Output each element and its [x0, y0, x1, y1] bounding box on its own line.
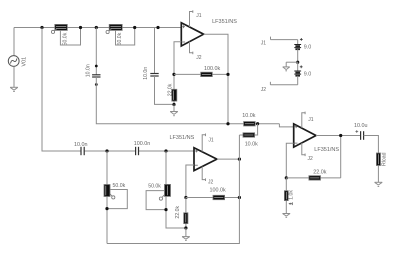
wire U3 feedback riser	[340, 136, 342, 178]
node output/feedback junction	[226, 73, 229, 76]
node U2 fb/rail junction	[238, 196, 241, 199]
wire vertical bus x=239	[107, 135, 239, 244]
potentiometer 50.0k (bottom B)	[148, 184, 170, 201]
pin J2 of U3	[302, 143, 313, 162]
resistor 10.0k (from U2)	[239, 124, 258, 148]
wire C2 to ground node	[155, 76, 175, 104]
potentiometer 50.0k (bottom A)	[104, 183, 126, 199]
resistor 22.0k (U3 feedback)	[286, 170, 340, 181]
svg-text:V01: V01	[21, 57, 27, 67]
op-amp U3 LF351/NS	[279, 124, 339, 153]
wire C1 down to mid rail	[96, 77, 243, 124]
node U2 feedback junction	[184, 196, 187, 199]
ground (battery midpoint)	[283, 62, 290, 71]
svg-text:9.0: 9.0	[304, 72, 312, 78]
node battery midpoint	[296, 61, 299, 64]
wire C2 riser	[154, 28, 156, 74]
ground (U1 net)	[170, 105, 178, 116]
wire pot2 wiper loop	[116, 28, 135, 46]
svg-text:22.0k: 22.0k	[167, 83, 173, 96]
svg-text:10.0n: 10.0n	[143, 67, 149, 80]
svg-text:9.0: 9.0	[304, 44, 312, 50]
resistor 1.0k (U3 to ground)	[284, 178, 294, 214]
svg-text:10.0u: 10.0u	[354, 123, 368, 129]
node pot B loop junction	[164, 208, 167, 211]
svg-text:10.0k: 10.0k	[242, 113, 255, 119]
resistor 10.0k (from U1)	[242, 113, 255, 126]
wire pot1 wiper loop	[60, 28, 80, 46]
wire midpoint to ground	[286, 61, 298, 63]
terminal J1 (supply)	[261, 37, 298, 47]
capacitor 10.0n (bottom rail)	[74, 142, 88, 155]
wire node A drop to bottom rail	[42, 28, 194, 152]
ground (Rload)	[375, 182, 383, 186]
node pot B branch junction	[164, 149, 167, 152]
wire pot A wiper loop	[107, 190, 127, 209]
node U3 feedback junction	[285, 176, 288, 179]
potentiometer 50.0k (top 1)	[51, 24, 68, 45]
pin J1 of U2	[202, 134, 214, 152]
node cap C1 top junction	[95, 26, 98, 29]
svg-text:100.0n: 100.0n	[134, 141, 151, 147]
svg-text:J2: J2	[208, 179, 214, 185]
wire U1 output	[204, 34, 228, 124]
svg-text:J2: J2	[308, 156, 314, 162]
wire V01 bottom	[13, 66, 15, 87]
battery V- 9.0	[294, 62, 311, 85]
resistor 100.0k (U1 feedback)	[174, 66, 228, 77]
node C1 upper pin dot	[95, 65, 98, 68]
node A junction	[40, 26, 43, 29]
terminal J2 (supply)	[261, 82, 298, 93]
wire V01 top riser	[13, 28, 15, 56]
wire U1 inverting input	[174, 42, 181, 105]
node ground junction U1	[172, 103, 175, 106]
battery V+ 9.0	[294, 38, 311, 62]
wire U2 inverting input	[186, 165, 194, 198]
node pot A loop junction	[105, 207, 108, 210]
wire C1 riser	[95, 28, 97, 75]
svg-text:50.0k: 50.0k	[62, 32, 68, 45]
svg-text:LF351/NS: LF351/NS	[170, 135, 195, 141]
wire top rail	[14, 27, 181, 29]
svg-text:10.0n: 10.0n	[85, 64, 91, 77]
node pot A branch junction	[105, 149, 108, 152]
node pot1 loop junction	[79, 26, 82, 29]
capacitor C1 10.0n	[85, 64, 100, 77]
svg-text:Rload: Rload	[381, 152, 387, 166]
ground (U3 net)	[283, 214, 291, 218]
wire U3 output	[316, 135, 361, 137]
svg-text:J1: J1	[308, 117, 314, 123]
op-amp U2 LF351/NS	[170, 135, 217, 171]
wire U3 inverting input	[286, 143, 293, 178]
ground (V01)	[10, 87, 18, 91]
svg-text:J2: J2	[196, 55, 202, 61]
svg-text:50.0k: 50.0k	[117, 32, 123, 45]
wire pot B lower	[166, 196, 186, 228]
wire pot A riser	[106, 151, 108, 185]
svg-text:J1: J1	[208, 137, 214, 143]
svg-text:J1: J1	[261, 41, 267, 47]
svg-text:LF351/NS: LF351/NS	[314, 147, 339, 153]
svg-text:J1: J1	[196, 13, 202, 19]
resistor 22.0k (U2 to ground)	[175, 198, 188, 229]
pin J2 of U1	[190, 42, 202, 61]
resistor 100.0k (U2 feedback)	[186, 188, 240, 200]
pin J1 of U3	[302, 112, 314, 128]
resistor 22.0k (U1 to ground)	[167, 83, 176, 101]
ground (U2 net)	[182, 228, 190, 240]
node summing rail junction	[226, 122, 229, 125]
capacitor 100.0n (bottom rail)	[134, 141, 151, 155]
pin J1 of U1	[190, 10, 202, 27]
resistor Rload	[376, 152, 387, 166]
svg-text:LF351/NS: LF351/NS	[212, 19, 237, 25]
svg-text:22.0k: 22.0k	[175, 206, 181, 219]
svg-text:50.0k: 50.0k	[113, 183, 126, 189]
svg-text:100.0k: 100.0k	[204, 66, 220, 72]
wire pot B wiper loop	[146, 191, 166, 210]
svg-text:J2: J2	[261, 87, 267, 93]
svg-text:22.0k: 22.0k	[313, 170, 326, 176]
capacitor C2 10.0n	[143, 67, 159, 80]
pin J2 of U2	[202, 167, 213, 186]
potentiometer 50.0k (top 2)	[106, 24, 123, 45]
wire summing node	[255, 123, 279, 125]
node U2 output junction	[238, 158, 241, 161]
voltage source V01	[8, 56, 27, 67]
node U2 ground junction	[184, 226, 187, 229]
capacitor 10.0u	[354, 123, 368, 140]
svg-text:100.0k: 100.0k	[210, 188, 226, 194]
svg-text:10.0k: 10.0k	[245, 142, 258, 148]
svg-text:1.0k: 1.0k	[289, 190, 295, 200]
svg-text:50.0k: 50.0k	[148, 184, 161, 190]
wire Rload to ground	[377, 166, 379, 183]
wire pot A lower	[106, 197, 108, 244]
node feedback junction	[172, 73, 175, 76]
node C1 lower pin dot	[95, 83, 98, 86]
node summing junction	[256, 122, 259, 125]
node U3 output junction	[339, 134, 342, 137]
op-amp U1 LF351/NS	[181, 19, 237, 46]
node cap C2 top junction	[156, 26, 159, 29]
wire pot B riser	[165, 151, 167, 184]
wire U2 output	[217, 158, 240, 160]
svg-text:10.0n: 10.0n	[74, 142, 88, 148]
wire cap to Rload	[364, 136, 379, 154]
node pot2 loop junction	[133, 26, 136, 29]
